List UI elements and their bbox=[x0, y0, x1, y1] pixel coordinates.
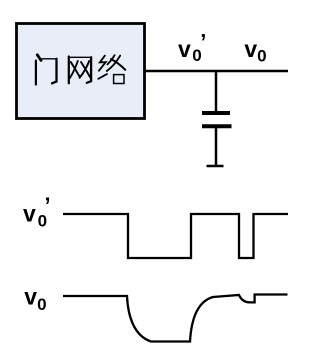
svg-text:’: ’ bbox=[45, 193, 51, 218]
gate network label 络 bbox=[98, 55, 125, 83]
waveform v0' trace bbox=[63, 214, 288, 258]
gate network label 门 bbox=[36, 55, 57, 85]
waveform v0 trace bbox=[63, 295, 288, 342]
capacitor C bottom plate bbox=[202, 124, 232, 128]
svg-text:v: v bbox=[178, 36, 191, 62]
waveform v0 label bbox=[24, 284, 46, 314]
svg-text:v: v bbox=[23, 200, 36, 226]
capacitor C top plate bbox=[202, 111, 230, 115]
waveform v0' label bbox=[23, 193, 51, 231]
svg-text:v: v bbox=[244, 36, 257, 62]
svg-text:0: 0 bbox=[257, 47, 266, 66]
node v0' label bbox=[178, 29, 206, 65]
gate network label 网 bbox=[69, 57, 91, 84]
svg-text:0: 0 bbox=[37, 295, 46, 314]
ground terminal bar bbox=[207, 165, 224, 168]
wire node to capacitor bbox=[215, 71, 218, 112]
svg-text:v: v bbox=[24, 284, 37, 310]
wire capacitor to ground bbox=[215, 128, 218, 165]
wire from gate output to right bbox=[145, 70, 289, 73]
svg-text:’: ’ bbox=[200, 29, 206, 54]
gate network box U1 bbox=[17, 24, 145, 119]
node v0 label bbox=[244, 36, 266, 66]
